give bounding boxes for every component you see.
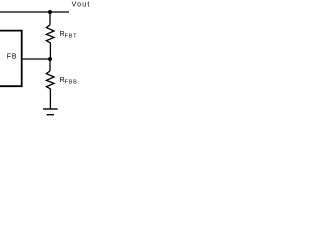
IC box (partial, FB pin side) [0, 31, 22, 87]
wire FB pin to node [23, 58, 50, 60]
svg-text:RFBB: RFBB [60, 77, 78, 86]
wire RFBT to FB node [49, 43, 51, 59]
node junction (FB tap) [48, 57, 52, 61]
wire RFBB to ground [49, 89, 51, 109]
resistor RFBT [46, 25, 54, 43]
wire Vout node to RFBT [49, 12, 51, 25]
resistor RFBB [46, 71, 54, 89]
svg-text:Vout: Vout [72, 2, 90, 9]
ground bar 2 [47, 114, 54, 116]
svg-text:RFBT: RFBT [60, 31, 78, 40]
ground bar 1 [43, 108, 58, 110]
wire Vout top rail [0, 11, 69, 13]
node junction (Vout tap) [48, 10, 52, 14]
wire FB node to RFBB [49, 59, 51, 71]
svg-text:FB: FB [7, 54, 18, 61]
